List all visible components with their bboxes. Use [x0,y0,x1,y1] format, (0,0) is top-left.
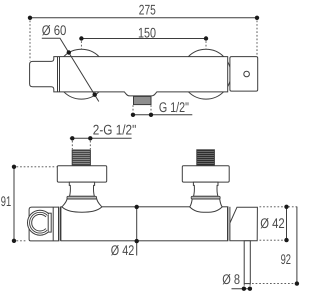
dashed 91 bottom [17,240,27,242]
joint lines left (top view) [57,57,59,92]
holder C-clip arm [48,213,51,232]
svg-text:91: 91 [1,193,12,209]
left inlet thread [72,150,90,166]
right knob circle [181,49,231,99]
handset holder block [29,207,59,241]
G1/2 dot right [149,113,153,117]
svg-text:150: 150 [138,24,156,40]
dia8 dot right [248,287,252,291]
2-G1/2 dashed right [89,141,91,150]
dot 150 left [79,36,83,40]
right bell base [190,199,223,212]
left escutcheon [57,166,106,182]
dimension 275 line [30,17,257,19]
bar body (top view) with left cap and center outlet hump [30,57,228,96]
dim dia42 center line [136,207,138,256]
dot 275 left [28,16,32,20]
dashed pipe bottom [252,283,295,285]
dia8 dashed right [249,284,251,287]
svg-text:92: 92 [281,251,292,267]
dim 91 line [13,167,15,241]
G1/2 leader line [133,114,192,116]
G1/2 dashed left [132,105,134,112]
dot dia60 upper [67,50,71,54]
dashed bar top right [260,206,300,208]
dot dia60 lower [93,93,97,97]
dot 91 bottom [12,239,16,243]
G1/2 dashed right [150,105,152,112]
dia8 leader line [232,288,252,290]
right escutcheon [182,166,229,182]
2-G1/2 dashed left [71,141,73,150]
joint lines left (front) [58,207,60,241]
svg-text:Ø 42: Ø 42 [260,215,285,231]
svg-text:G 1/2": G 1/2" [159,99,189,115]
right coupling thread strip [191,196,220,199]
dot 92 bottom [295,281,299,285]
right inlet thread [197,150,215,166]
right end cap (top view) [230,57,258,92]
dashed bar bottom right [260,239,285,241]
2-G1/2 leader line [70,137,132,139]
dia8 dashed left [243,284,245,287]
leader dia60 [42,38,99,101]
end cap hole [244,71,250,77]
dim 92 line [296,207,298,284]
G1/2 outlet nipple (top view, hatched) [134,96,152,104]
dimension 150 line [81,38,206,40]
2-G1/2 dot left [70,136,74,140]
2-G1/2 dot right [88,136,92,140]
dashed 91 top [17,166,57,168]
dim dia42 right line [286,207,288,240]
dot dia42 center bottom [135,239,139,243]
holder cap edge [52,207,54,241]
extension dashed right 275 [256,21,258,56]
holder C-clip middle contour [30,212,48,233]
dot dia42 right bottom [284,238,288,242]
center dashed left knob [80,41,82,49]
front bar body [61,207,228,241]
outlet end piece [230,207,258,241]
left spool connector [69,182,94,196]
outlet pipe dia8 [244,241,250,284]
svg-text:Ø 60: Ø 60 [42,22,67,38]
dot dia42 right top [284,205,288,209]
svg-text:Ø 8: Ø 8 [222,271,240,287]
G1/2 dot left [131,113,135,117]
dia8 dot left [242,287,246,291]
joint lines right (front) [227,207,229,241]
dot 150 right [204,36,208,40]
svg-text:Ø 42: Ø 42 [111,242,135,258]
svg-text:275: 275 [139,2,156,18]
left coupling thread strip [67,196,97,199]
dot 275 right [255,16,259,20]
extension dashed left 275 [29,21,31,61]
svg-text:2-G 1/2": 2-G 1/2" [93,122,137,138]
left knob circle (Ø60) [57,49,107,99]
right spool connector [193,182,218,196]
holder C-clip [30,212,48,233]
left bell base [62,199,102,212]
dot 91 top [12,165,16,169]
dot dia42 center top [135,205,139,209]
center dashed right knob [205,41,207,49]
